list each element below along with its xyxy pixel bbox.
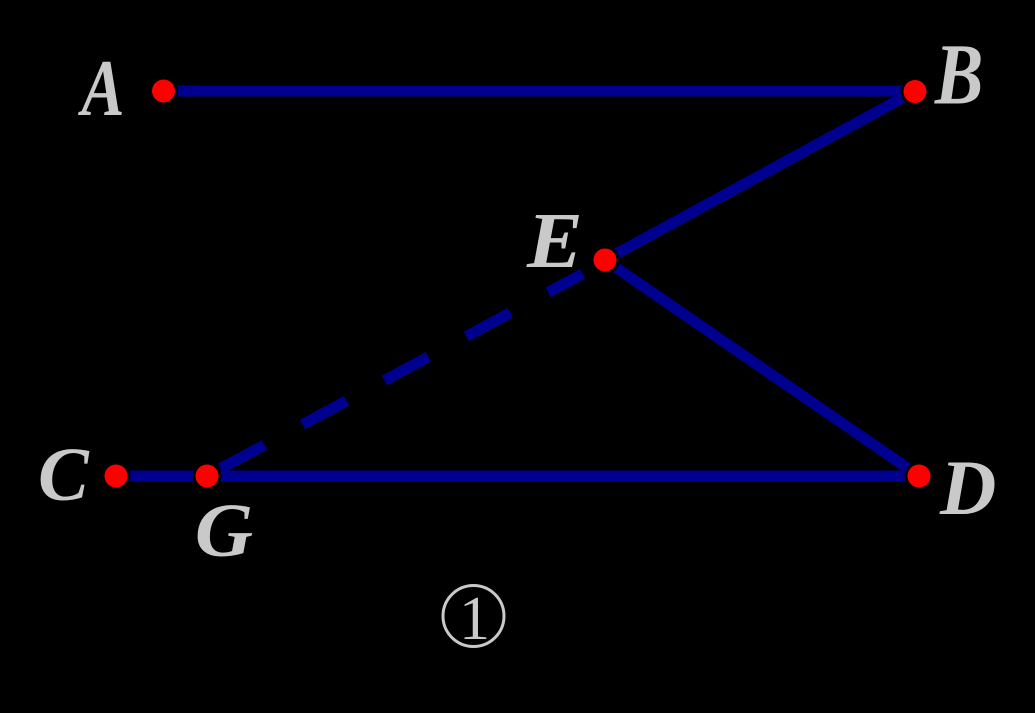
svg-text:G: G bbox=[195, 488, 253, 572]
node B halo bbox=[901, 77, 930, 106]
svg-text:1: 1 bbox=[459, 585, 490, 653]
svg-text:D: D bbox=[939, 444, 996, 531]
node C bbox=[105, 465, 128, 488]
wire segment EG dashed bbox=[221, 274, 583, 469]
node G halo bbox=[193, 462, 222, 491]
node D halo bbox=[905, 462, 934, 491]
node A bbox=[152, 80, 175, 103]
wire segment BE bbox=[605, 91, 915, 260]
node A halo bbox=[149, 77, 178, 106]
svg-text:C: C bbox=[38, 433, 90, 517]
figure number circled 1 bbox=[443, 586, 504, 647]
wire segment ED bbox=[605, 260, 919, 476]
node C halo bbox=[102, 462, 131, 491]
svg-text:E: E bbox=[526, 197, 583, 284]
wire segment AB bbox=[163, 86, 915, 97]
wire segment CD bbox=[116, 471, 919, 482]
node E halo bbox=[591, 246, 620, 275]
svg-text:B: B bbox=[934, 27, 983, 122]
node G bbox=[196, 465, 219, 488]
node D bbox=[908, 465, 931, 488]
node E bbox=[594, 249, 617, 272]
node B bbox=[904, 80, 927, 103]
svg-text:A: A bbox=[78, 43, 125, 132]
